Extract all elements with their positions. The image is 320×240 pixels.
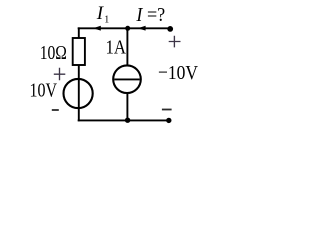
svg-text:10Ω: 10Ω xyxy=(40,42,67,64)
svg-text:−10V: −10V xyxy=(158,62,198,84)
svg-text:1: 1 xyxy=(104,15,109,26)
svg-text:I =?: I =? xyxy=(136,4,166,26)
svg-text:1A: 1A xyxy=(106,37,127,59)
svg-text:10V: 10V xyxy=(30,80,58,102)
